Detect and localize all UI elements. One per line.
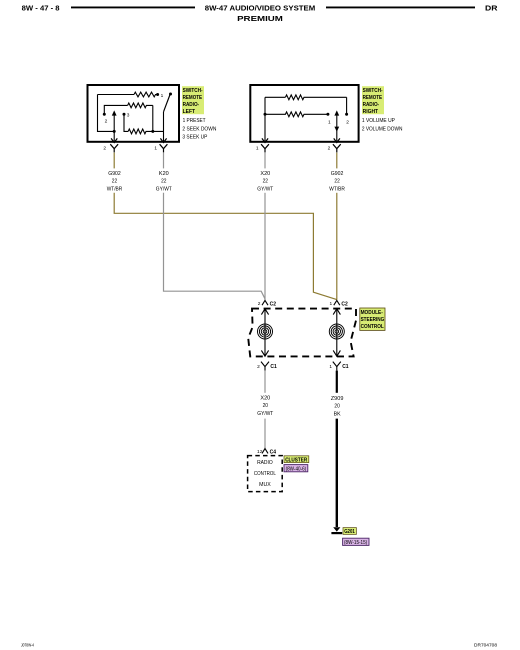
label S2 pin functions [362,118,403,133]
connector terminal S1 pin2 [103,144,118,152]
label G201 [343,528,356,536]
svg-text:X20: X20 [260,171,270,177]
node contact 3 (S1) [123,113,130,119]
svg-text:C2: C2 [341,302,348,308]
svg-text:G902: G902 [108,171,121,177]
svg-text:RADIO: RADIO [257,460,273,466]
wire X20 run to module [264,193,266,300]
cluster dashed box (radio control mux) [248,456,283,492]
connector terminal S2 pin1 [256,144,269,152]
coil spiral right (module) [329,324,344,339]
header page number [22,4,60,13]
svg-text:REMOTE: REMOTE [183,95,203,101]
svg-text:WT/BR: WT/BR [329,187,345,193]
resistor S2 volume (top) [285,95,346,100]
wire X20 GY/WT from S2 pin1 (upper) [264,153,266,169]
wire contact3 drop [124,114,128,131]
label ref 8W-40-6 [284,465,308,473]
node junction S2 left rail [264,113,267,116]
svg-text:C4: C4 [270,450,277,456]
wire X20 lower run [264,419,266,449]
svg-text:1 VOLUME UP: 1 VOLUME UP [362,118,395,124]
svg-text:22: 22 [334,178,339,184]
module internal arrow up (right) [333,309,340,325]
wire S2 right drop [346,97,348,113]
connector terminal S2 pin2 [328,144,341,152]
wire K20 GY/WT from S1 pin1 (upper) [163,153,165,169]
label CLUSTER [284,456,309,464]
wire G902 WT/BR from S2 pin2 (upper) [336,153,338,169]
wire S2 top row lead [265,96,285,98]
svg-text:8W-47 AUDIO/VIDEO SYSTEM: 8W-47 AUDIO/VIDEO SYSTEM [205,4,316,13]
svg-text:20: 20 [334,404,339,410]
svg-text:1: 1 [328,119,331,125]
svg-text:STEERING: STEERING [361,317,385,323]
wire S2 left rail [264,97,266,141]
svg-text:RADIO-: RADIO- [183,102,200,108]
pin exit arrow S2 pin2 [334,138,340,142]
svg-text:MUX: MUX [259,482,271,488]
connector pin 1 C2 (module) [330,300,348,307]
svg-text:LEFT: LEFT [183,109,196,115]
label ref 8W-15-15 [343,538,369,546]
svg-text:WT/BR: WT/BR [107,187,123,193]
node contact 2 (S1) [103,113,108,125]
label wire X20 lower [257,395,273,417]
label wire X20 upper [257,171,273,193]
svg-text:RADIO-: RADIO- [363,102,380,108]
svg-text:1: 1 [329,364,332,370]
wire G902 right run to module [336,193,338,300]
label wire K20 [156,171,172,193]
pin exit arrow S2 pin1 [262,138,268,142]
header title [205,4,316,24]
resistor S1 seek (middle) [128,103,153,108]
coil spiral left (module) [258,324,273,339]
ground G201 symbol [331,527,342,534]
wire S1 right rail [153,105,164,131]
resistor S1 seek-up (bottom) [128,129,153,134]
node contact 1 (S2) [326,113,331,126]
label S1 pin functions [182,118,216,141]
footer right code [474,642,497,647]
switch S1 box (remote radio left) [88,85,180,142]
pin exit arrow S1 pin1 [160,138,166,142]
svg-text:SWITCH-: SWITCH- [183,88,203,94]
module internal arrow down (right) [333,324,340,356]
svg-text:(8W-40-6): (8W-40-6) [286,467,307,473]
label SWITCH-REMOTE RADIO-RIGHT [362,86,384,115]
svg-text:1: 1 [161,93,164,99]
wire S1 common rail [163,112,165,141]
module internal arrow down (left) [261,324,268,356]
svg-text:1: 1 [256,145,259,151]
svg-text:X20: X20 [260,395,270,401]
svg-text:RIGHT: RIGHT [363,109,379,115]
svg-text:1: 1 [154,145,157,151]
wire X20 lower (module to cluster) [264,371,266,393]
svg-text:1 PRESET: 1 PRESET [183,118,207,124]
svg-text:K20: K20 [159,171,169,177]
svg-text:20: 20 [263,403,268,409]
switch lever S1 [164,93,173,112]
svg-text:GY/WT: GY/WT [257,411,273,417]
svg-text:2 VOLUME DOWN: 2 VOLUME DOWN [362,126,403,132]
wire S1 top row lead [98,94,135,96]
svg-text:1: 1 [330,301,333,307]
svg-text:3: 3 [127,113,130,119]
svg-text:DR: DR [485,4,498,13]
switch S2 box (remote radio right) [250,85,358,142]
svg-text:REMOTE: REMOTE [363,95,383,101]
module U1 steering control dashed outline [248,309,356,357]
svg-text:(8W-15-15): (8W-15-15) [344,540,367,546]
svg-text:3 SEEK UP: 3 SEEK UP [182,135,207,141]
module internal arrow up (left) [261,309,268,325]
header rule left [71,6,195,8]
svg-text:CONTROL: CONTROL [361,324,385,330]
wire S1 mid row [104,105,127,113]
connector pin 1 C1 (module bottom) [329,362,348,371]
svg-text:22: 22 [161,178,166,184]
svg-text:22: 22 [263,178,268,184]
node contact 2 (S2) [345,113,349,126]
svg-text:GY/WT: GY/WT [156,187,172,193]
svg-text:Z909: Z909 [331,396,344,402]
svg-text:SWITCH-: SWITCH- [363,88,383,94]
svg-text:BK: BK [334,412,341,418]
svg-text:2: 2 [257,364,260,370]
connector pin 12 C4 (cluster) [257,449,276,456]
svg-text:DR704708: DR704708 [474,642,497,647]
svg-text:GY/WT: GY/WT [257,187,273,193]
svg-text:2: 2 [346,119,349,125]
wiper arrow S1 [112,110,117,141]
svg-text:2: 2 [105,119,108,125]
svg-text:G902: G902 [331,171,344,177]
connector pin 2 C1 (module bottom) [257,362,277,371]
svg-text:2: 2 [328,145,331,151]
svg-text:8W - 47 - 8: 8W - 47 - 8 [22,4,60,13]
footer left code [21,642,34,647]
svg-text:C1: C1 [342,364,349,370]
wire Z909 BK (module to ground, upper part) [336,371,338,393]
resistor S2 volume (middle) [265,112,327,117]
svg-text:J078W-4: J078W-4 [21,642,34,647]
wire S1 left rail [98,95,115,132]
node junction S1 wiper/bottom [113,130,116,133]
svg-text:2: 2 [258,301,261,307]
pin exit arrow S1 pin2 [111,138,117,142]
svg-text:G201: G201 [344,529,355,535]
connector pin 2 C2 (module) [258,300,276,307]
label wire G902 right [329,171,345,193]
wire K20 run to module [164,193,266,299]
svg-text:CLUSTER: CLUSTER [285,457,307,463]
svg-text:22: 22 [112,178,117,184]
header DR [485,4,498,13]
svg-text:2: 2 [103,145,106,151]
resistor S1 preset (top) [134,92,157,97]
connector terminal S1 pin1 [154,144,167,152]
label wire Z909 [331,396,344,418]
wire G902 WT/BR from S1 pin2 (upper) [113,153,115,169]
node contact 1 (S1) [156,93,164,99]
label wire G902 left [107,171,123,193]
svg-text:PREMIUM: PREMIUM [237,14,283,23]
label SWITCH-REMOTE RADIO-LEFT [182,86,204,115]
svg-text:C2: C2 [270,302,277,308]
svg-text:2 SEEK DOWN: 2 SEEK DOWN [182,126,216,132]
svg-text:CONTROL: CONTROL [254,471,276,477]
header rule right [326,6,475,8]
svg-text:12: 12 [257,449,263,455]
wire Z909 run to ground [336,419,338,527]
svg-text:MODULE-: MODULE- [361,310,383,316]
wiper double arrow S2 [334,110,339,141]
svg-text:C1: C1 [270,364,277,370]
node junction S1 right rail [151,130,154,133]
label MODULE-STEERING CONTROL [360,308,385,330]
wire G902 left run to module [114,193,337,300]
